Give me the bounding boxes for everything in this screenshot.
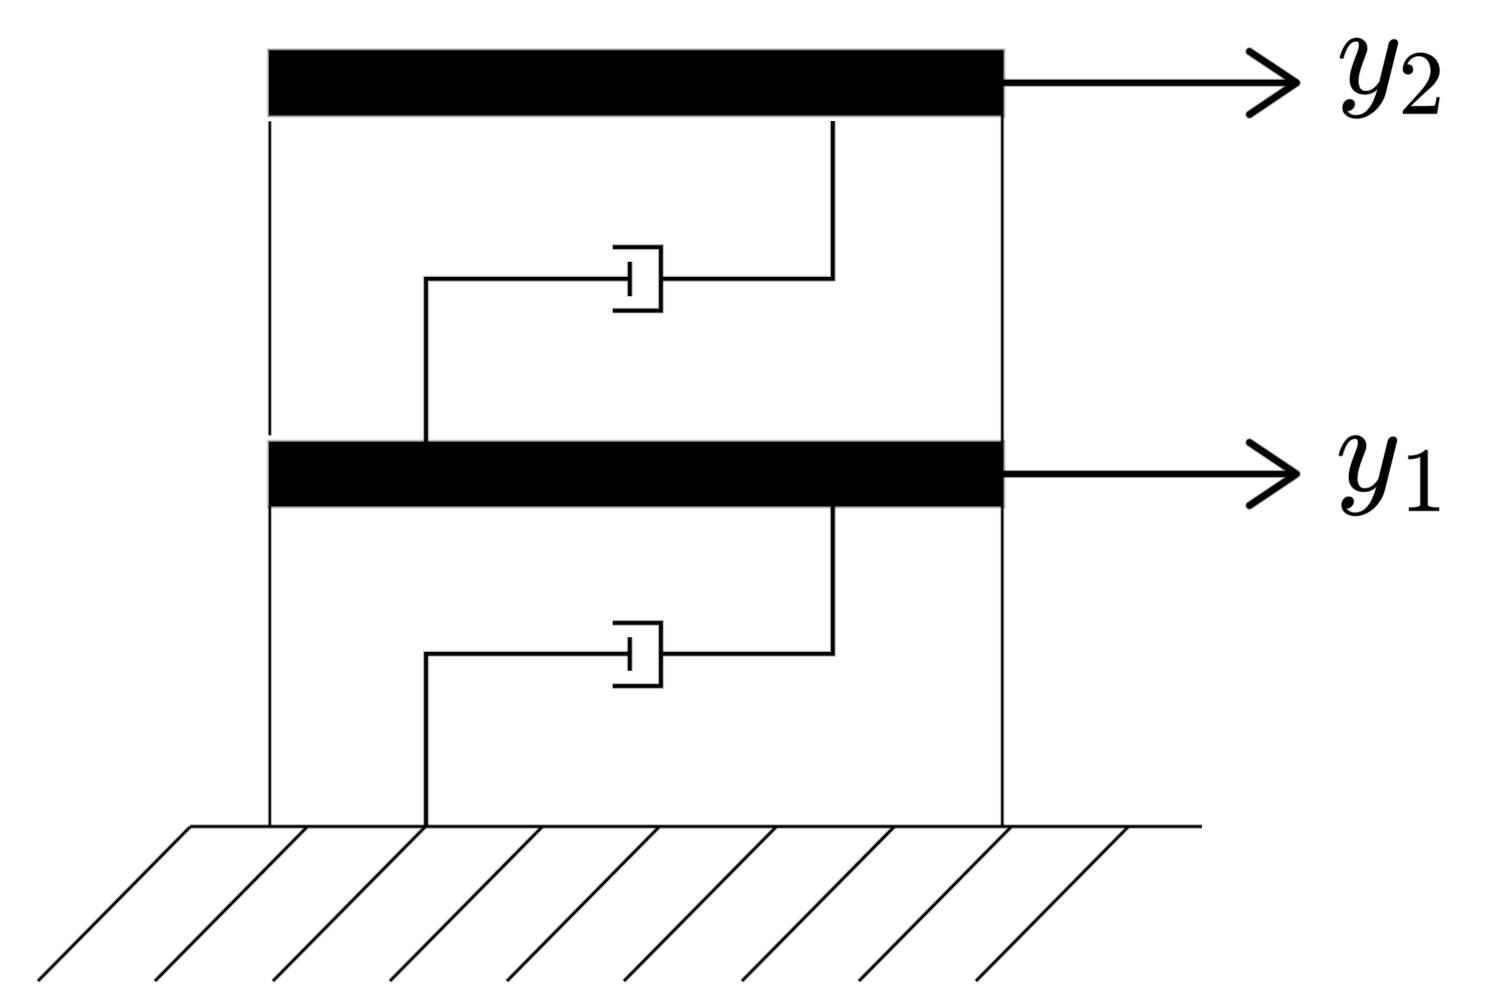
arrow heads y1 y2 <box>1250 52 1297 506</box>
mass m2 (top floor slab) <box>269 50 1003 115</box>
label y2 : letter y <box>1340 38 1398 119</box>
label y2 : subscript 2 <box>1403 53 1439 114</box>
arrow shafts y1 y2 <box>1003 83 1294 474</box>
dampers c1 and c2 with link rods <box>426 121 833 826</box>
label y1 : subscript 1 <box>1408 450 1439 511</box>
wall columns (both stories) <box>270 115 1003 826</box>
label y1 : letter y <box>1339 435 1397 516</box>
ground with hatching <box>38 827 1202 982</box>
mass m1 (middle floor slab) <box>269 442 1003 507</box>
